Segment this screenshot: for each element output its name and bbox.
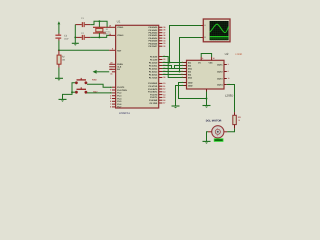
microcontroller U1 — [116, 20, 159, 116]
node RST junction — [58, 49, 60, 51]
svg-text:P0.4/AD4: P0.4/AD4 — [149, 37, 159, 40]
wire B1 right to U1 P1.0 — [87, 84, 112, 87]
ground (left of U2) — [172, 106, 180, 108]
svg-text:L293D: L293D — [235, 53, 242, 56]
wire caps common vertical — [74, 25, 76, 44]
svg-text:7: 7 — [182, 64, 183, 67]
DC motor — [206, 119, 227, 138]
svg-text:P0.6/AD6: P0.6/AD6 — [149, 42, 159, 45]
svg-text:OUT3: OUT3 — [217, 77, 223, 80]
wire U2 SENS left to grounds — [179, 83, 207, 99]
svg-text:15: 15 — [181, 73, 183, 76]
wire scope ch B — [180, 38, 202, 72]
svg-text:P0.3/AD3: P0.3/AD3 — [149, 34, 159, 37]
node U2 ground junction — [206, 98, 208, 100]
capacitor C3 — [55, 34, 69, 41]
node crystal top tap — [98, 20, 100, 22]
wire C1 to XTAL1 (loop over crystal) — [90, 21, 107, 27]
push button B2 — [75, 87, 98, 93]
svg-text:XTAL1: XTAL1 — [117, 26, 124, 29]
node buttons common junction — [71, 91, 73, 93]
U2 left pins — [181, 61, 193, 87]
ground (below U2) — [203, 106, 211, 108]
wire crystal bottom stub — [98, 33, 100, 37]
svg-text:P1.1/T2EX: P1.1/T2EX — [117, 89, 127, 92]
svg-text:AT89C51: AT89C51 — [119, 112, 130, 115]
wire motor left to ground — [207, 132, 209, 142]
wire XTAL1 pin stub — [106, 26, 116, 28]
svg-text:P2.1/A9: P2.1/A9 — [150, 58, 158, 61]
wire U1 P2.3 to U2 (jog down) — [162, 66, 183, 69]
ground (buttons) — [59, 99, 67, 101]
svg-text:P3.4/T0: P3.4/T0 — [150, 93, 158, 96]
svg-text:P0.2/AD2: P0.2/AD2 — [149, 32, 159, 35]
svg-text:P2.5/A13: P2.5/A13 — [149, 70, 158, 73]
svg-text:9: 9 — [182, 76, 183, 79]
wire B2 right to U1 P1.2 — [87, 92, 112, 94]
svg-text:1: 1 — [182, 67, 183, 70]
power terminal VCC arrow — [58, 21, 61, 33]
svg-text:P1.0/T2: P1.0/T2 — [117, 86, 125, 89]
wire U1 P2.0 to U2 EN2 — [162, 57, 183, 78]
U2 right pins — [217, 63, 229, 86]
U1 left pins — [109, 25, 128, 109]
svg-text:P2.3/A11: P2.3/A11 — [149, 64, 158, 67]
svg-text:10: 10 — [181, 70, 183, 73]
svg-text:P3.5/T1: P3.5/T1 — [150, 96, 158, 99]
wire U2 GND pin down — [206, 89, 208, 92]
crystal X1 — [93, 27, 111, 35]
wire RST node to U1 — [59, 49, 109, 51]
svg-text:XTAL2: XTAL2 — [117, 34, 124, 37]
wire U2 OUT4 to R6 — [227, 85, 235, 113]
U1 right pins — [148, 26, 166, 105]
svg-text:OUT1: OUT1 — [217, 63, 223, 66]
node caps-C2 junction — [74, 36, 76, 38]
svg-text:DCL MOTOR: DCL MOTOR — [206, 119, 222, 122]
svg-text:P0.5/AD5: P0.5/AD5 — [149, 40, 159, 43]
svg-text:FWD: FWD — [92, 78, 97, 81]
node crystal bottom tap — [98, 36, 100, 38]
svg-text:VSS: VSS — [209, 61, 214, 64]
svg-text:P0.7/AD7: P0.7/AD7 — [149, 45, 159, 48]
wire U1 P2.2 to U2 IN1 (scope ch A tap) — [162, 62, 183, 64]
svg-text:P2.6/A14: P2.6/A14 — [149, 73, 158, 76]
svg-text:OUT4: OUT4 — [217, 83, 223, 86]
svg-text:P3.1/TXD: P3.1/TXD — [149, 85, 158, 88]
svg-text:3: 3 — [228, 63, 229, 66]
ground (below R2) — [55, 78, 63, 80]
wire U2 VS-VSS bridge — [201, 54, 211, 58]
terminal arrow (EA) — [93, 70, 110, 74]
ground (motor) — [203, 141, 211, 143]
svg-text:P3.6/WR: P3.6/WR — [149, 99, 158, 102]
svg-text:P2.4/A12: P2.4/A12 — [149, 67, 158, 70]
svg-text:GND: GND — [188, 81, 193, 84]
svg-text:P3.0/RXD: P3.0/RXD — [148, 82, 157, 85]
svg-text:10uF: 10uF — [64, 38, 69, 41]
svg-text:P0.1/AD1: P0.1/AD1 — [149, 29, 159, 32]
svg-text:U2: U2 — [225, 52, 229, 56]
capacitor C2 — [75, 32, 90, 40]
resistor R6 — [233, 112, 242, 129]
wire U1 P2.5 to U2 (scope ch B tap) — [162, 71, 183, 73]
oscilloscope — [201, 19, 230, 42]
wire R6 to motor — [227, 129, 234, 132]
motor rpm display — [214, 139, 223, 142]
svg-text:P0.0/AD0: P0.0/AD0 — [149, 26, 159, 29]
wire C2 to XTAL2 — [90, 35, 109, 37]
wire U1 P2.6 to U2 — [162, 74, 183, 76]
resistor R2 — [57, 50, 66, 67]
svg-text:P3.3/INT1: P3.3/INT1 — [148, 91, 158, 94]
svg-text:OUT2: OUT2 — [217, 70, 223, 73]
svg-text:GND: GND — [188, 84, 193, 87]
svg-text:P3.7/RD: P3.7/RD — [150, 102, 158, 105]
node scope A tap — [169, 62, 171, 64]
wire R2 to ground — [58, 68, 60, 79]
wire crystal top stub — [98, 21, 100, 27]
capacitor C1 — [75, 17, 90, 27]
push button B1 — [75, 78, 97, 84]
ground (crystal caps) — [72, 43, 79, 45]
U2 top pin numbers — [198, 57, 215, 64]
node scope B tap — [179, 71, 181, 73]
wire C3 to RST node — [58, 41, 60, 51]
svg-text:8: 8 — [202, 57, 203, 60]
svg-text:6: 6 — [228, 70, 229, 73]
svg-text:P3.2/INT0: P3.2/INT0 — [148, 88, 158, 91]
wire buttons left common — [63, 83, 76, 99]
wire scope ch A — [170, 26, 202, 63]
motor driver U2 — [187, 52, 243, 97]
svg-text:P2.7/A15: P2.7/A15 — [149, 76, 158, 79]
svg-text:11: 11 — [228, 77, 230, 80]
wire U1 P2.4 to U2 (jog up) — [162, 66, 183, 69]
svg-text:16: 16 — [213, 57, 215, 60]
svg-text:U1: U1 — [117, 20, 121, 24]
svg-text:L293D: L293D — [225, 93, 233, 97]
svg-text:P2.2/A10: P2.2/A10 — [149, 61, 158, 64]
svg-text:2: 2 — [182, 61, 183, 64]
svg-text:P2.0/A8: P2.0/A8 — [150, 55, 158, 58]
